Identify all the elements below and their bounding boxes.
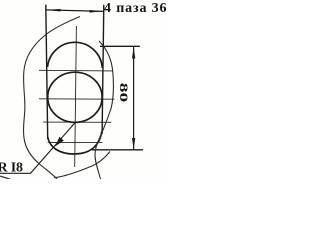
svg-text:80: 80 [117,83,129,102]
extension line top right (for 80) [100,45,140,47]
extension line bottom right (for 80) [92,149,143,151]
horizontal line lower chord [48,141,103,143]
freehand break line right [95,41,113,179]
arrow 80-dim up [132,47,135,59]
horizontal centerline circle center [39,98,115,100]
freehand break line bottom rising [54,152,110,178]
svg-text:4 паза 36: 4 паза 36 [104,1,167,16]
svg-text:R I8: R I8 [0,160,23,175]
freehand break line left [23,17,80,180]
horizontal centerline bottom arc center [43,121,111,123]
freehand short stroke bottom-left corner [0,176,11,180]
arrowheads [46,9,135,150]
arrow R18 leader [55,137,64,147]
horizontal centerline top arc center [39,69,113,72]
dimension line 36 (top) [46,10,104,12]
arrow 36-dim left [46,9,60,12]
arrow 36-dim right [90,10,104,13]
dimension line 80 (vertical) [133,46,135,150]
bottom cap arc R18 [48,131,102,154]
extension line left (slot left side) [46,5,48,139]
wire [0,5,143,180]
central circle [48,72,102,122]
extension line right (slot right side) [102,5,104,134]
top cap arc R18 [48,42,103,68]
vertical centerline [75,26,77,167]
leader line R18 [0,122,75,173]
arrow 80-dim down [132,138,135,149]
